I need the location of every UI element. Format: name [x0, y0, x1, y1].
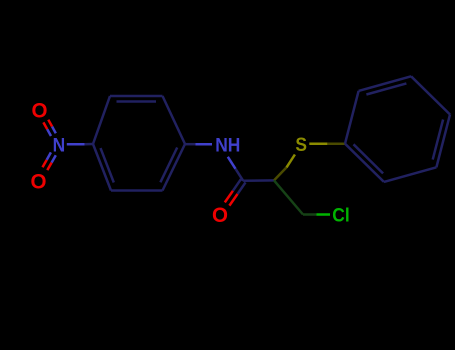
- bond S-C(ring2) sulfur half: [309, 142, 327, 145]
- ring2 edge V5-V6: [384, 167, 437, 182]
- ring1 inner double V4-V5: [160, 148, 177, 183]
- ring2 edge V6-V1: [345, 144, 384, 182]
- svg-text:N: N: [53, 134, 66, 156]
- bond N1=O2 line (half near start): [47, 152, 51, 160]
- bond N1-C(ring) nitrogen half: [67, 143, 85, 146]
- bond N1=O1 line (half near start): [52, 127, 56, 134]
- ring1 edge V3-V4: [163, 96, 186, 144]
- svg-text:O: O: [212, 204, 228, 227]
- svg-text:O: O: [31, 99, 47, 122]
- ring2 inner double V2-V3: [366, 83, 406, 94]
- bond C7=O3 line (half near end): [229, 194, 237, 206]
- bond C9-Cl chlorine half: [317, 213, 331, 216]
- ring2 edge V1-V2: [345, 91, 359, 144]
- bond N1=O1 line (half near start): [47, 129, 51, 136]
- bond C8-S carbon half: [274, 167, 287, 180]
- ring1 edge V5-V6: [111, 189, 163, 192]
- svg-text:O: O: [30, 170, 46, 193]
- ring1 edge V6-V1: [93, 144, 111, 191]
- bond N1=O1 line (half near end): [43, 122, 47, 129]
- bond C7=O3 line (half near start): [233, 179, 241, 191]
- bond N1=O2 line (half near end): [47, 163, 51, 171]
- ring1 edge V1-V2: [93, 96, 110, 144]
- svg-text:S: S: [295, 133, 307, 155]
- ring1 edge V2-V3: [110, 95, 163, 98]
- ring1 inner double V2-V3: [117, 100, 157, 103]
- bond NH-C7 nitrogen half: [228, 157, 236, 169]
- ring2 edge V2-V3: [359, 76, 412, 91]
- bond C(ring)-NH carbon half: [185, 143, 196, 146]
- ring2 edge V4-V5: [436, 115, 450, 168]
- bond NH-C7 carbon half: [236, 169, 244, 181]
- bond C7=O3 line (half near end): [225, 191, 233, 203]
- bond N1-C(ring) carbon half: [85, 143, 93, 146]
- ring1 edge V4-V5: [163, 144, 186, 191]
- bond S-C(ring2) carbon half: [327, 142, 345, 145]
- svg-text:NH: NH: [215, 133, 240, 155]
- bond C7=O3 line (half near start): [238, 182, 246, 194]
- bond C8-S sulfur half: [287, 155, 295, 168]
- bond C9-Cl carbon half: [303, 213, 317, 216]
- ring2 inner double V6-V1: [354, 144, 384, 173]
- bond N1=O2 line (half near start): [52, 155, 56, 162]
- ring1 inner double V6-V1: [101, 148, 114, 182]
- bond C(ring)-NH nitrogen half: [196, 143, 213, 146]
- bond N1=O2 line (half near end): [43, 160, 47, 167]
- bond C8-C9: [274, 180, 303, 214]
- svg-text:Cl: Cl: [332, 203, 349, 225]
- bond C7-C8: [243, 179, 274, 182]
- ring2 inner double V4-V5: [433, 120, 443, 160]
- ring2 edge V3-V4: [411, 76, 450, 114]
- bond N1=O1 line (half near end): [48, 120, 52, 127]
